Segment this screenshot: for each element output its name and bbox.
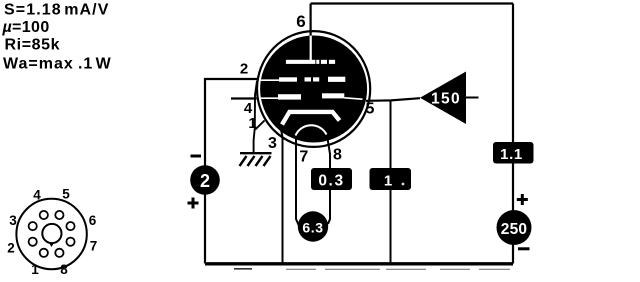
ground symbol bbox=[240, 153, 272, 166]
tube anode plate bar bbox=[286, 60, 316, 64]
tube grid g1 row (dashed) bbox=[257, 97, 279, 99]
svg-text:8: 8 bbox=[333, 147, 342, 164]
wire pin7 heater lead bbox=[296, 134, 300, 227]
tube cathode bbox=[282, 112, 340, 125]
socket pin hole 5 bbox=[55, 211, 63, 219]
speaker (earphone) 150 ohm bbox=[420, 72, 466, 125]
svg-text:2: 2 bbox=[7, 241, 15, 256]
minus sign of battery 250 bbox=[518, 247, 530, 250]
svg-text:5: 5 bbox=[366, 101, 375, 118]
svg-text:6: 6 bbox=[89, 213, 97, 228]
svg-text:Wa=max .1 W: Wa=max .1 W bbox=[3, 56, 112, 73]
battery 2V grid bias bbox=[190, 165, 220, 195]
svg-text:Ri=85k: Ri=85k bbox=[5, 37, 61, 54]
wire screen branch down through resistor 1. bbox=[390, 100, 392, 263]
wire pin3 cathode down lead bbox=[281, 127, 283, 264]
socket outline circle bbox=[16, 199, 86, 269]
socket pin hole 4 bbox=[40, 211, 48, 219]
svg-text:250: 250 bbox=[501, 221, 527, 238]
svg-text:3: 3 bbox=[268, 135, 277, 152]
socket pin hole 6 bbox=[66, 222, 74, 230]
socket pin hole 2 bbox=[29, 238, 37, 246]
svg-text:3: 3 bbox=[9, 213, 17, 228]
battery 6.3V heater bbox=[298, 211, 328, 241]
socket pin hole 1 bbox=[40, 249, 48, 257]
resistor box 1. bbox=[370, 168, 412, 190]
svg-text:µ: µ bbox=[2, 19, 13, 36]
socket pin hole 7 bbox=[66, 238, 74, 246]
wire pin1 lead bbox=[255, 121, 264, 130]
svg-text:8: 8 bbox=[60, 262, 68, 277]
resistor box 1.1 bbox=[493, 142, 534, 164]
wire left grid-bias branch bbox=[205, 79, 259, 264]
svg-text:=100: =100 bbox=[12, 19, 50, 36]
socket spigot key notch bbox=[49, 243, 54, 248]
wire bottom rail bbox=[205, 262, 513, 265]
wire pin4 stub bbox=[231, 97, 257, 99]
svg-text:6: 6 bbox=[296, 12, 305, 31]
svg-text:7: 7 bbox=[299, 149, 308, 166]
wire pin5 to speaker bbox=[366, 98, 420, 101]
socket center spigot bbox=[42, 224, 61, 243]
svg-text:1.1: 1.1 bbox=[500, 146, 523, 163]
battery 250V HT bbox=[497, 210, 532, 245]
wire right HT rail bbox=[512, 4, 514, 264]
svg-text:4: 4 bbox=[33, 188, 41, 203]
resistor box 0.3 bbox=[311, 168, 352, 190]
tube grid g2 row (dashed) bbox=[259, 79, 281, 81]
socket pin hole 3 bbox=[29, 222, 37, 230]
svg-text:1: 1 bbox=[248, 115, 256, 132]
socket pin hole 8 bbox=[55, 249, 63, 257]
wire speaker right stub bbox=[466, 97, 479, 99]
tube V1 inner black disc bbox=[260, 36, 367, 143]
svg-text:150: 150 bbox=[431, 90, 461, 107]
plus sign of battery 2 bbox=[188, 198, 199, 209]
wire pin8 heater lead through 0.3 bbox=[327, 134, 330, 224]
tube anode lead inside (white) bbox=[310, 34, 312, 60]
plus sign of battery 250 bbox=[517, 194, 528, 205]
svg-text:6.3: 6.3 bbox=[302, 219, 323, 235]
svg-text:2: 2 bbox=[200, 171, 210, 191]
svg-text:S=1.18 mA/V: S=1.18 mA/V bbox=[4, 2, 110, 19]
tube V1 envelope outer circle bbox=[257, 31, 370, 147]
svg-text:1: 1 bbox=[384, 172, 392, 189]
wire top rail from pin6 to HT+ rail bbox=[311, 2, 513, 4]
svg-text:2: 2 bbox=[240, 61, 248, 78]
svg-text:5: 5 bbox=[62, 187, 70, 202]
tube heater arc bbox=[296, 125, 327, 135]
minus sign of battery 2 bbox=[191, 155, 202, 158]
svg-text:7: 7 bbox=[90, 239, 98, 254]
wire pin6 anode top lead bbox=[310, 4, 312, 37]
wire shield line to ground bbox=[254, 81, 257, 153]
svg-text:0.3: 0.3 bbox=[318, 173, 344, 190]
bottom rail scan shadow line bbox=[286, 268, 510, 270]
svg-text:1: 1 bbox=[31, 262, 39, 277]
